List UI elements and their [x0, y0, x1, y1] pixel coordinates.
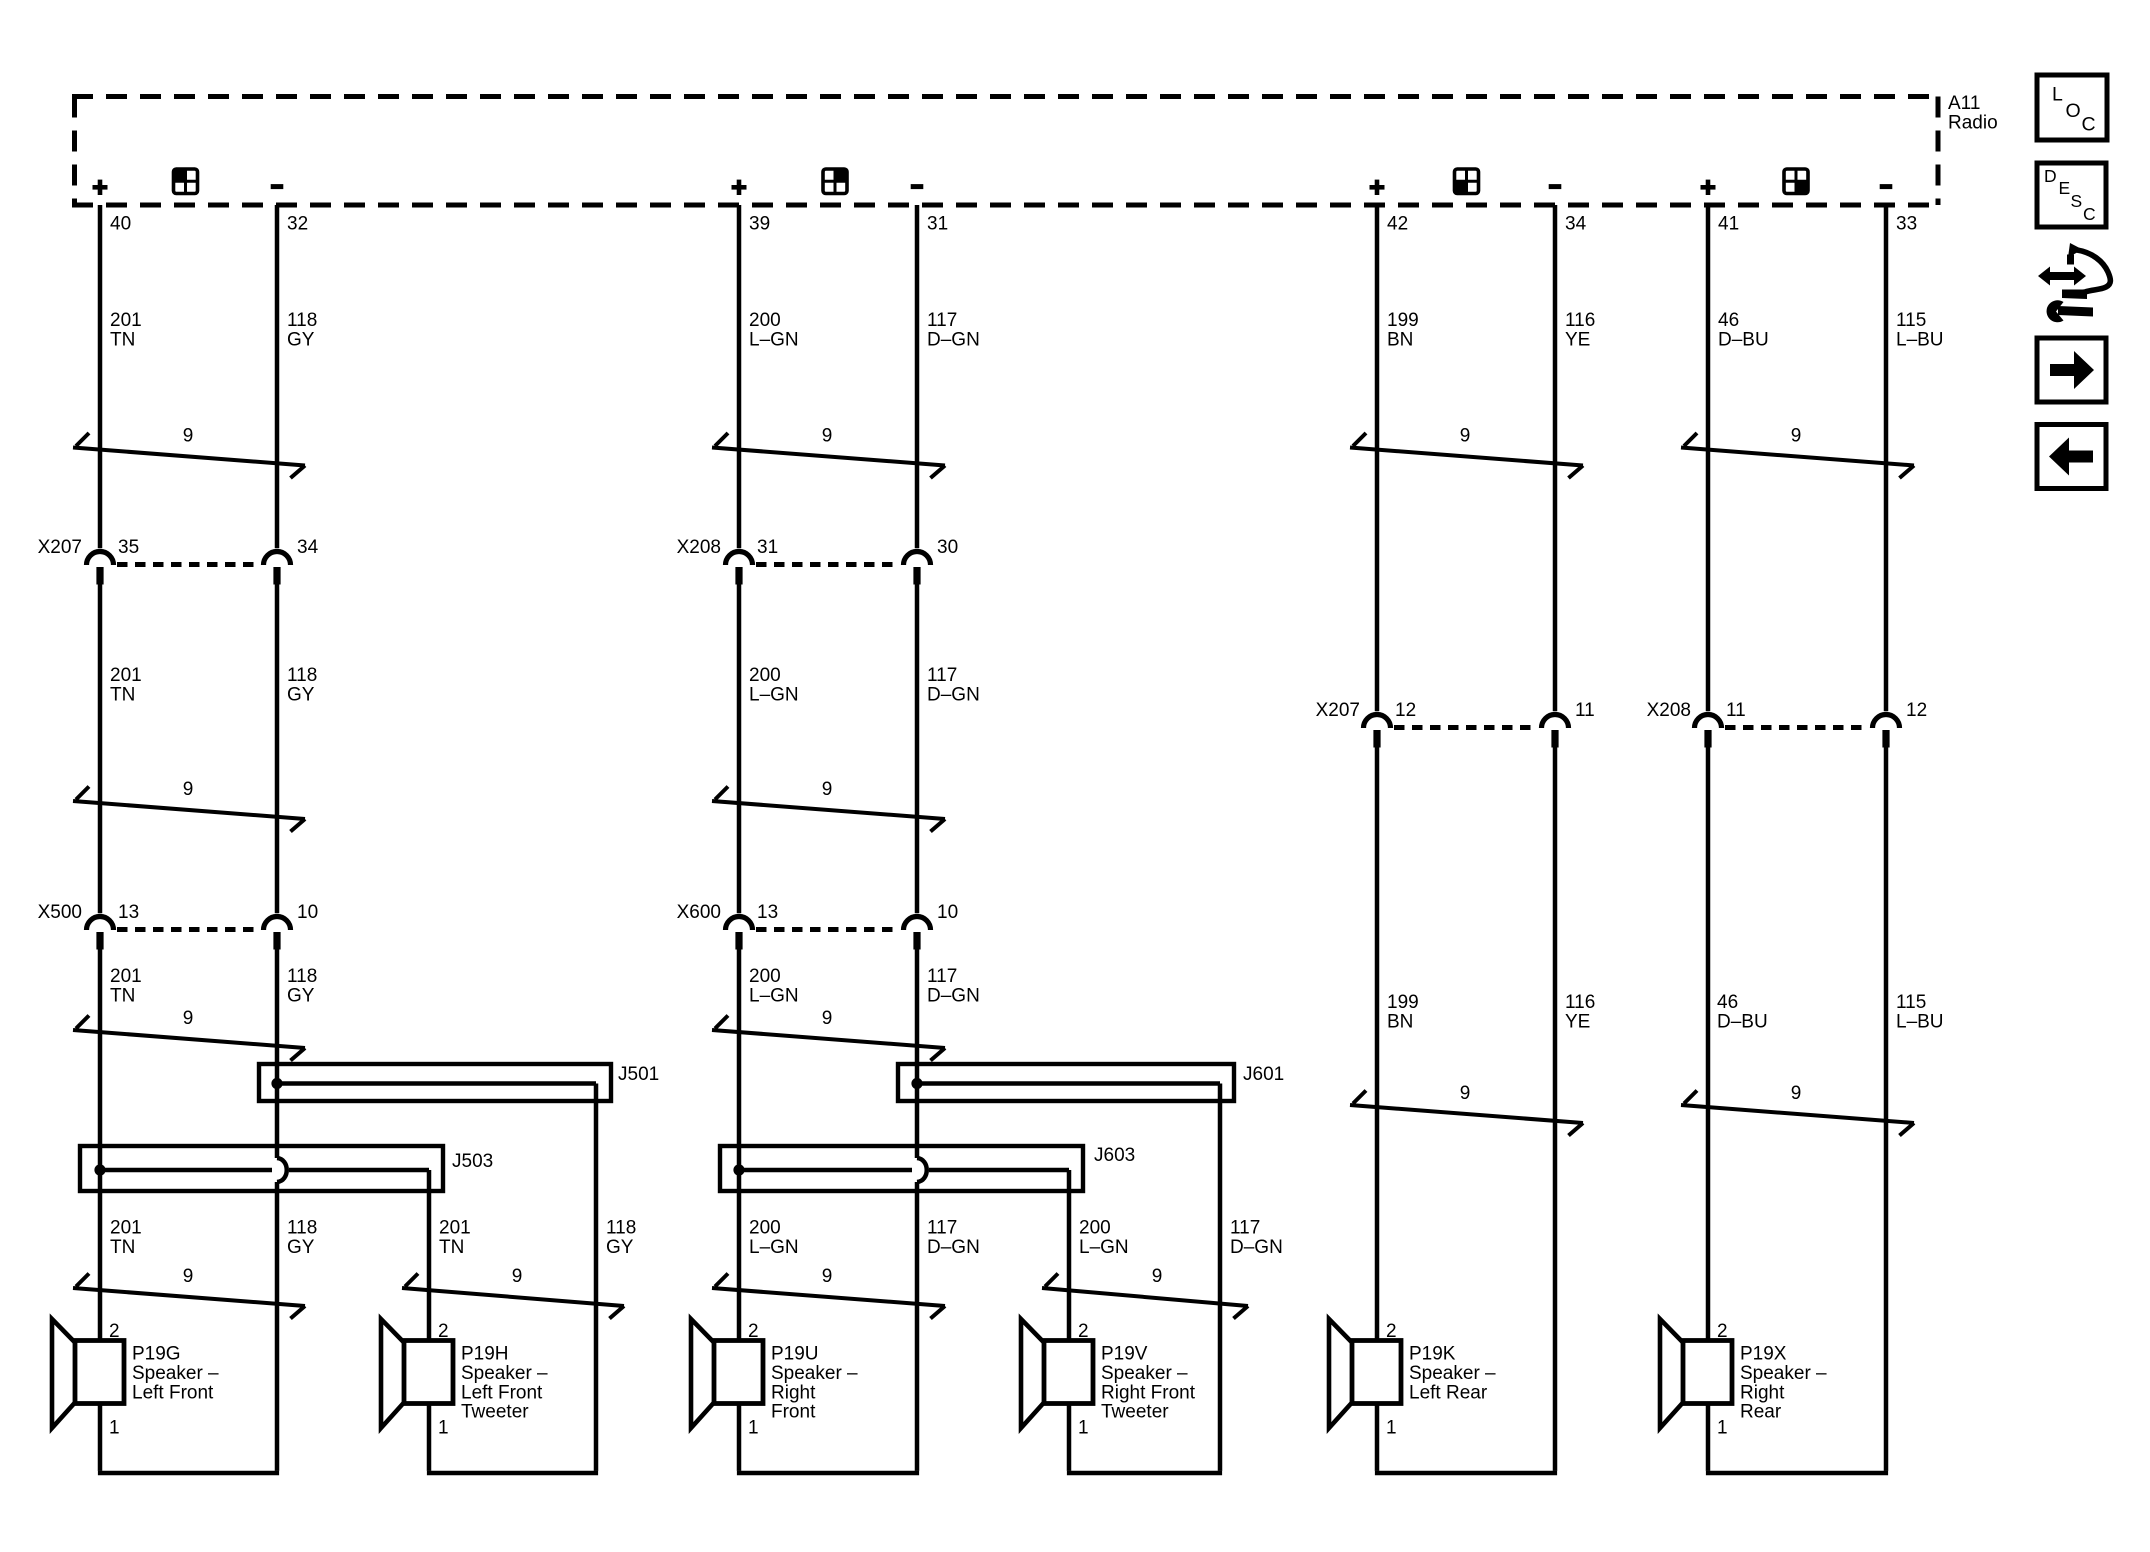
wire 46 D-BU X208 to speaker P19X pin 2 [1706, 730, 1711, 1340]
svg-text:118: 118 [287, 1218, 317, 1239]
svg-text:118: 118 [287, 665, 317, 686]
wire 201 TN radio pin 40 to X207 [98, 205, 103, 548]
wire 115 L-BU radio pin 33 to X208 [1884, 205, 1889, 711]
speaker P19V Speaker - Right Front Tweeter symbol [1021, 1319, 1044, 1428]
svg-text:9: 9 [822, 1008, 833, 1029]
svg-text:9: 9 [1791, 1083, 1802, 1104]
radio pin polarity + (circuit 2) [732, 185, 747, 190]
svg-text:201: 201 [110, 310, 142, 331]
wire P19U Speaker - Right Front bottom return run [737, 1471, 919, 1475]
svg-text:J603: J603 [1094, 1145, 1135, 1166]
svg-text:GY: GY [606, 1237, 634, 1258]
speaker-position icon (quadrant TR) [823, 169, 847, 194]
splice J501 bus bar [277, 1081, 596, 1086]
svg-text:1: 1 [1078, 1418, 1089, 1439]
svg-text:34: 34 [1565, 214, 1587, 235]
splice pack J603 [720, 1146, 1083, 1191]
wire 116 YE X207 to speaker P19K pin 1 run [1553, 730, 1558, 1471]
wire 118 GY J501 to speaker P19H pin 1 run [594, 1084, 599, 1471]
in-line connector terminal X207 pin 11 [1542, 715, 1569, 729]
connector X500 dashed pair line [117, 927, 260, 932]
wire 46 D-BU radio pin 41 to X208 [1706, 205, 1711, 711]
twisted-pair symbol row1 [712, 433, 945, 478]
svg-text:GY: GY [287, 329, 315, 350]
connector X600 dashed pair line [756, 927, 900, 932]
svg-text:11: 11 [1726, 700, 1746, 721]
wire 118 GY X207 to X500 [275, 584, 280, 913]
svg-text:Radio: Radio [1948, 112, 1998, 133]
svg-text:P19H: P19H [461, 1344, 509, 1365]
wire 117 D-GN J601 to speaker P19V pin 1 run [1218, 1084, 1223, 1471]
svg-text:Right: Right [1740, 1382, 1785, 1403]
svg-text:34: 34 [297, 537, 319, 558]
svg-text:201: 201 [110, 665, 142, 686]
svg-text:46: 46 [1717, 992, 1738, 1013]
twisted-pair symbol row3 right-front [712, 1016, 945, 1061]
in-line connector terminal X207 pin 12 [1364, 715, 1391, 729]
svg-text:L–BU: L–BU [1896, 329, 1944, 350]
svg-text:40: 40 [110, 214, 131, 235]
svg-text:J503: J503 [452, 1151, 493, 1172]
svg-text:199: 199 [1387, 310, 1419, 331]
connector X207 dashed pair line [117, 562, 260, 567]
wire 199 BN radio pin 42 to X207 [1375, 205, 1380, 711]
wire P19U Speaker - Right Front pin 1 lead [737, 1403, 742, 1471]
svg-text:33: 33 [1896, 214, 1917, 235]
wire 118 GY X500 to J503 hop [275, 932, 280, 1158]
splice pack J501 [259, 1064, 611, 1101]
svg-text:L–GN: L–GN [749, 1237, 799, 1258]
svg-text:2: 2 [109, 1321, 120, 1342]
svg-text:9: 9 [512, 1266, 523, 1287]
svg-text:9: 9 [183, 1008, 194, 1029]
wire 116 YE radio pin 34 to X207 [1553, 205, 1558, 711]
svg-text:13: 13 [757, 902, 778, 923]
svg-text:117: 117 [927, 966, 957, 987]
svg-text:P19X: P19X [1740, 1344, 1787, 1365]
speaker P19X Speaker - Right Rear symbol [1660, 1319, 1683, 1428]
twisted-pair symbol speaker RF tweeter [1042, 1274, 1248, 1319]
svg-text:YE: YE [1565, 1011, 1590, 1032]
svg-text:X500: X500 [38, 902, 82, 923]
svg-text:X207: X207 [38, 537, 82, 558]
svg-text:O: O [2066, 100, 2081, 122]
svg-text:Rear: Rear [1740, 1402, 1782, 1423]
svg-text:32: 32 [287, 214, 308, 235]
wire P19K Speaker - Left Rear pin 1 lead [1375, 1403, 1380, 1471]
wire 199 BN X207 to speaker P19K pin 2 [1375, 730, 1380, 1340]
svg-text:J601: J601 [1243, 1064, 1284, 1085]
in-line connector terminal X208 pin 31 [726, 552, 753, 566]
svg-text:9: 9 [1460, 426, 1471, 447]
svg-text:L–GN: L–GN [749, 985, 799, 1006]
svg-text:115: 115 [1896, 992, 1926, 1013]
svg-text:C: C [2083, 204, 2096, 224]
component box A11 Radio (dashed outline) [72, 97, 1939, 206]
legend icon DESC box [2037, 163, 2106, 227]
wire P19H Speaker - Left Front Tweeter bottom return run [427, 1471, 598, 1475]
radio pin polarity - (circuit 4) [1880, 184, 1893, 189]
in-line connector terminal X208 pin 12 [1873, 715, 1900, 729]
svg-text:Left Front: Left Front [461, 1382, 543, 1403]
in-line connector terminal X207 pin 35 [87, 552, 114, 566]
svg-text:Tweeter: Tweeter [461, 1402, 529, 1423]
svg-text:TN: TN [439, 1237, 464, 1258]
svg-text:Speaker –: Speaker – [1740, 1363, 1827, 1384]
wire P19V Speaker - Right Front Tweeter pin 1 lead [1067, 1403, 1072, 1471]
speaker-position icon (quadrant TL) [174, 169, 198, 194]
svg-text:201: 201 [110, 1218, 142, 1239]
wire 117 D-GN X208 to X600 [915, 584, 920, 913]
splice J601 junction dot [911, 1078, 922, 1089]
wire 115 L-BU X208 to speaker P19X pin 1 run [1884, 730, 1889, 1471]
wire P19X Speaker - Right Rear pin 1 lead [1706, 1403, 1711, 1471]
svg-text:P19V: P19V [1101, 1344, 1148, 1365]
svg-text:117: 117 [927, 1218, 957, 1239]
svg-text:GY: GY [287, 1237, 315, 1258]
svg-text:9: 9 [1152, 1266, 1163, 1287]
svg-text:YE: YE [1565, 329, 1590, 350]
svg-text:118: 118 [287, 966, 317, 987]
svg-text:Right Front: Right Front [1101, 1382, 1196, 1403]
svg-text:D–GN: D–GN [1230, 1237, 1283, 1258]
wire 118 GY J503 to speaker P19G pin 1 run [275, 1182, 280, 1471]
in-line connector terminal X500 pin 10 [264, 917, 291, 930]
svg-text:L–GN: L–GN [1079, 1237, 1129, 1258]
speaker-position icon (quadrant BL) [1455, 169, 1479, 194]
svg-text:1: 1 [1386, 1418, 1397, 1439]
in-line connector terminal X208 pin 11 [1695, 715, 1722, 729]
splice pack J503 [80, 1146, 443, 1191]
svg-text:L–BU: L–BU [1896, 1011, 1944, 1032]
svg-text:X208: X208 [1647, 700, 1691, 721]
svg-text:1: 1 [1717, 1418, 1728, 1439]
in-line connector terminal X208 pin 30 [904, 552, 931, 566]
svg-text:1: 1 [438, 1418, 449, 1439]
svg-text:BN: BN [1387, 1011, 1413, 1032]
twisted-pair symbol rear left [1350, 1091, 1583, 1136]
wire 117 D-GN radio pin 31 to X208 [915, 205, 920, 548]
splice pack J601 [898, 1064, 1234, 1101]
svg-text:D–GN: D–GN [927, 684, 980, 705]
svg-text:A11: A11 [1948, 93, 1980, 114]
svg-text:9: 9 [822, 779, 833, 800]
twisted-pair symbol row2 left-front [73, 787, 305, 832]
twisted-pair symbol speaker RF [712, 1274, 945, 1319]
svg-text:31: 31 [757, 537, 778, 558]
svg-text:2: 2 [1386, 1321, 1397, 1342]
svg-text:X600: X600 [677, 902, 721, 923]
wire P19H Speaker - Left Front Tweeter pin 1 lead [427, 1403, 432, 1471]
svg-text:D: D [2044, 166, 2057, 186]
legend icon LOC box [2037, 75, 2107, 140]
svg-text:42: 42 [1387, 214, 1408, 235]
splice J503 bus bar [100, 1168, 272, 1173]
svg-text:9: 9 [1791, 426, 1802, 447]
wire hop (no connection) 117 D-GN over J603 bus [917, 1158, 927, 1182]
svg-text:Speaker –: Speaker – [1409, 1363, 1496, 1384]
svg-text:P19K: P19K [1409, 1344, 1456, 1365]
wire P19G Speaker - Left Front bottom return run [98, 1471, 279, 1475]
in-line connector terminal X500 pin 13 [87, 917, 114, 930]
wire 117 D-GN X600 to J603 hop [915, 932, 920, 1158]
svg-text:X207: X207 [1316, 700, 1360, 721]
wire 118 GY radio pin 32 to X207 [275, 205, 280, 548]
svg-text:200: 200 [749, 310, 781, 331]
svg-text:200: 200 [749, 1218, 781, 1239]
svg-text:12: 12 [1906, 700, 1927, 721]
svg-text:10: 10 [297, 902, 318, 923]
svg-text:2: 2 [438, 1321, 449, 1342]
radio pin polarity + (circuit 4) [1701, 185, 1716, 190]
svg-text:41: 41 [1718, 214, 1739, 235]
svg-text:Speaker –: Speaker – [461, 1363, 548, 1384]
speaker-position icon (quadrant BR) [1784, 169, 1808, 194]
svg-text:Speaker –: Speaker – [1101, 1363, 1188, 1384]
svg-text:199: 199 [1387, 992, 1419, 1013]
svg-text:9: 9 [183, 779, 194, 800]
svg-text:Right: Right [771, 1382, 816, 1403]
wire P19G Speaker - Left Front pin 1 lead [98, 1403, 103, 1471]
wire hop (no connection) 118 GY over J503 bus [277, 1158, 287, 1182]
svg-text:201: 201 [439, 1218, 471, 1239]
svg-text:9: 9 [822, 426, 833, 447]
svg-text:46: 46 [1718, 310, 1739, 331]
svg-text:P19G: P19G [132, 1344, 181, 1365]
svg-text:31: 31 [927, 214, 948, 235]
svg-text:9: 9 [183, 426, 194, 447]
svg-text:9: 9 [822, 1266, 833, 1287]
splice J603 bus bar [739, 1168, 912, 1173]
twisted-pair symbol rear right [1681, 1091, 1914, 1136]
svg-text:117: 117 [927, 665, 957, 686]
svg-text:116: 116 [1565, 310, 1595, 331]
svg-text:E: E [2059, 178, 2071, 198]
svg-text:S: S [2071, 191, 2083, 211]
svg-text:Front: Front [771, 1402, 816, 1423]
splice J503 bus bar continued [289, 1168, 429, 1173]
svg-text:10: 10 [937, 902, 958, 923]
wire 200 L-GN X600 to speaker P19U pin 2 [737, 932, 742, 1340]
svg-text:118: 118 [287, 310, 317, 331]
svg-text:L–GN: L–GN [749, 329, 799, 350]
legend icon arrow-left box [2037, 425, 2106, 489]
svg-text:117: 117 [1230, 1218, 1260, 1239]
twisted-pair symbol speaker LF tweeter [402, 1274, 624, 1319]
in-line connector terminal X600 pin 13 [726, 917, 753, 930]
svg-text:117: 117 [927, 310, 957, 331]
svg-text:30: 30 [937, 537, 958, 558]
twisted-pair symbol row1 [73, 433, 305, 478]
svg-text:Speaker –: Speaker – [771, 1363, 858, 1384]
connector X208 dashed pair line [1725, 725, 1869, 730]
in-line connector terminal X600 pin 10 [904, 917, 931, 930]
svg-text:200: 200 [1079, 1218, 1111, 1239]
speaker P19U Speaker - Right Front symbol [691, 1319, 714, 1428]
wire 201 TN X500 to speaker P19G pin 2 [98, 932, 103, 1340]
speaker P19G Speaker - Left Front symbol [52, 1319, 75, 1428]
svg-text:9: 9 [1460, 1083, 1471, 1104]
wire 201 TN X207 to X500 [98, 584, 103, 913]
svg-text:D–BU: D–BU [1718, 329, 1769, 350]
radio pin polarity - (circuit 2) [911, 184, 924, 189]
radio pin polarity + (circuit 1) [93, 185, 108, 190]
radio pin polarity - (circuit 3) [1549, 184, 1562, 189]
wire 117 D-GN J603 to speaker P19U pin 1 run [915, 1182, 920, 1471]
in-line connector terminal X207 pin 34 [264, 552, 291, 566]
svg-text:Left Rear: Left Rear [1409, 1382, 1488, 1403]
svg-text:TN: TN [110, 684, 135, 705]
svg-text:13: 13 [118, 902, 139, 923]
splice J601 bus bar [917, 1081, 1220, 1086]
splice J503 junction dot [94, 1164, 105, 1175]
svg-text:118: 118 [606, 1218, 636, 1239]
wire P19V Speaker - Right Front Tweeter bottom return run [1067, 1471, 1222, 1475]
speaker P19K Speaker - Left Rear symbol [1329, 1319, 1352, 1428]
connector X208 dashed pair line [756, 562, 900, 567]
svg-text:12: 12 [1395, 700, 1416, 721]
svg-text:TN: TN [110, 329, 135, 350]
svg-text:35: 35 [118, 537, 139, 558]
svg-text:D–GN: D–GN [927, 985, 980, 1006]
svg-text:1: 1 [748, 1418, 759, 1439]
svg-text:L: L [2052, 84, 2063, 106]
svg-text:2: 2 [748, 1321, 759, 1342]
wire 200 L-GN X208 to X600 [737, 584, 742, 913]
svg-text:Speaker –: Speaker – [132, 1363, 219, 1384]
svg-text:9: 9 [183, 1266, 194, 1287]
svg-text:D–GN: D–GN [927, 1237, 980, 1258]
svg-text:BN: BN [1387, 329, 1413, 350]
svg-text:C: C [2082, 114, 2096, 136]
svg-text:116: 116 [1565, 992, 1595, 1013]
svg-text:Tweeter: Tweeter [1101, 1402, 1169, 1423]
svg-text:115: 115 [1896, 310, 1926, 331]
svg-text:11: 11 [1575, 700, 1595, 721]
twisted-pair symbol row1 [1681, 433, 1914, 478]
legend icon arrow-right box (circuit continues) [2037, 338, 2106, 402]
svg-text:2: 2 [1078, 1321, 1089, 1342]
svg-text:1: 1 [109, 1418, 120, 1439]
svg-text:201: 201 [110, 966, 142, 987]
connector X207 dashed pair line [1394, 725, 1538, 730]
legend icon double arrow with wrench (service) [2038, 243, 2110, 322]
twisted-pair symbol speaker LF [73, 1274, 305, 1319]
svg-text:D–GN: D–GN [927, 329, 980, 350]
wire P19K Speaker - Left Rear bottom return run [1375, 1471, 1557, 1475]
svg-text:TN: TN [110, 1237, 135, 1258]
svg-text:P19U: P19U [771, 1344, 819, 1365]
twisted-pair symbol row1 [1350, 433, 1583, 478]
wire 201 TN J503 to speaker P19H pin 2 [427, 1170, 432, 1340]
splice J603 junction dot [733, 1164, 744, 1175]
svg-text:GY: GY [287, 684, 315, 705]
svg-text:D–BU: D–BU [1717, 1011, 1768, 1032]
twisted-pair symbol row3 left-front [73, 1016, 305, 1061]
svg-text:J501: J501 [618, 1064, 659, 1085]
splice J501 junction dot [271, 1078, 282, 1089]
radio pin polarity - (circuit 1) [271, 184, 284, 189]
wire 200 L-GN radio pin 39 to X208 [737, 205, 742, 548]
svg-text:TN: TN [110, 985, 135, 1006]
radio pin polarity + (circuit 3) [1370, 185, 1385, 190]
speaker P19H Speaker - Left Front Tweeter symbol [381, 1319, 404, 1428]
svg-text:Left Front: Left Front [132, 1382, 214, 1403]
wire 200 L-GN J603 to speaker P19V pin 2 [1067, 1170, 1072, 1340]
svg-text:200: 200 [749, 665, 781, 686]
svg-text:GY: GY [287, 985, 315, 1006]
svg-text:2: 2 [1717, 1321, 1728, 1342]
svg-text:200: 200 [749, 966, 781, 987]
wire P19X Speaker - Right Rear bottom return run [1706, 1471, 1888, 1475]
svg-text:L–GN: L–GN [749, 684, 799, 705]
splice J603 bus bar continued [929, 1168, 1069, 1173]
twisted-pair symbol row2 right-front [712, 787, 945, 832]
svg-text:39: 39 [749, 214, 770, 235]
svg-text:X208: X208 [677, 537, 721, 558]
